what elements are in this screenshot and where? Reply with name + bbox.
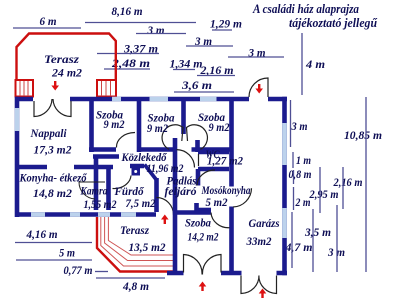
svg-text:3,6 m: 3,6 m <box>181 78 212 92</box>
svg-text:17,3 m2: 17,3 m2 <box>34 143 72 157</box>
svg-text:1 m: 1 m <box>296 153 311 167</box>
svg-text:9 m2: 9 m2 <box>147 121 168 135</box>
svg-text:tájékoztató jellegű: tájékoztató jellegű <box>289 16 378 30</box>
svg-text:Terasz: Terasz <box>120 223 149 237</box>
svg-text:1,34 m: 1,34 m <box>170 57 203 71</box>
svg-text:14,2 m2: 14,2 m2 <box>188 230 219 244</box>
mosokonyha door arc <box>197 170 215 186</box>
wall top <box>15 97 287 102</box>
svg-text:6 m: 6 m <box>40 14 57 28</box>
svg-text:3 m: 3 m <box>327 245 345 259</box>
svg-text:0,77 m: 0,77 m <box>64 263 93 277</box>
wc wall top <box>198 150 229 155</box>
red arrow lower terrace entry <box>161 215 169 225</box>
red arrow garage entry <box>259 289 267 299</box>
mosokonyha bottom wall <box>196 208 211 213</box>
svg-text:2 m: 2 m <box>295 195 311 209</box>
svg-text:9 m2: 9 m2 <box>209 120 230 134</box>
svg-text:4,16 m: 4,16 m <box>26 227 58 241</box>
wc wall bottom <box>198 167 229 172</box>
bottom szoba double door <box>184 255 222 275</box>
svg-text:Garázs: Garázs <box>249 216 280 230</box>
red arrow szoba door <box>199 282 207 292</box>
svg-text:feljáró: feljáró <box>165 184 197 198</box>
terrace step box right <box>97 80 116 97</box>
wall szoba1 left <box>89 99 94 152</box>
bottom szoba top door arc <box>211 213 230 228</box>
svg-text:8,16 m: 8,16 m <box>112 4 143 18</box>
blue flue symbol <box>132 168 141 176</box>
wall left of bottom szoba <box>173 138 178 273</box>
red arrow main entry <box>255 84 263 94</box>
svg-text:9 m2: 9 m2 <box>104 117 125 131</box>
kamra wall left <box>94 155 99 211</box>
wc top stub wall <box>195 140 200 152</box>
wall szoba1 right <box>137 99 142 152</box>
bathroom chamfer wall <box>145 165 157 181</box>
main entry door top <box>249 78 268 97</box>
wc door <box>177 150 199 168</box>
kamra thin door <box>79 182 105 199</box>
svg-text:Szoba: Szoba <box>185 216 211 230</box>
svg-text:1,27 m2: 1,27 m2 <box>207 154 243 168</box>
wall szoba3 right long <box>229 99 234 273</box>
main bottom wall <box>15 212 156 217</box>
wall szoba2/3 divider <box>181 99 186 134</box>
svg-text:Nappali: Nappali <box>30 126 68 140</box>
svg-text:7,5 m2: 7,5 m2 <box>126 196 156 210</box>
svg-text:3 m: 3 m <box>291 119 308 133</box>
svg-text:0,8 m: 0,8 m <box>289 167 312 181</box>
svg-text:13,5 m2: 13,5 m2 <box>129 240 166 254</box>
furdo door <box>113 176 132 189</box>
svg-text:Kamra: Kamra <box>80 184 108 198</box>
terrace top red outline <box>17 34 116 81</box>
svg-text:33m2: 33m2 <box>246 234 272 248</box>
szoba1 door <box>116 133 135 148</box>
svg-text:Terasz: Terasz <box>44 52 79 66</box>
svg-text:2,95 m: 2,95 m <box>309 187 339 201</box>
svg-text:5 m: 5 m <box>59 246 75 260</box>
svg-text:14,8 m2: 14,8 m2 <box>33 186 72 200</box>
svg-text:10,85 m: 10,85 m <box>344 128 382 142</box>
svg-text:4,8 m: 4,8 m <box>122 279 149 293</box>
svg-text:1,55 m2: 1,55 m2 <box>84 197 117 211</box>
windows left wall <box>15 108 20 131</box>
red arrow terrace-nappali <box>51 81 59 91</box>
svg-text:24 m2: 24 m2 <box>51 66 82 80</box>
windows right wall <box>282 123 287 238</box>
szoba3 door half-open <box>187 125 208 149</box>
garage double door <box>241 276 277 294</box>
bathroom top wall <box>93 154 119 159</box>
windows bottom wall <box>31 212 136 217</box>
terrace step box left <box>16 80 34 97</box>
wall right <box>282 97 287 276</box>
kamra wall right <box>106 167 111 210</box>
svg-text:4 m: 4 m <box>305 57 325 71</box>
wall left <box>15 97 20 217</box>
bottom szoba top wall <box>173 210 211 215</box>
bottom walls szoba + garage <box>167 271 287 276</box>
nappali double door <box>34 99 71 117</box>
bedroom bottom walls <box>89 147 233 152</box>
svg-text:1,29 m: 1,29 m <box>210 17 242 31</box>
lower terrace red curves <box>97 217 176 272</box>
svg-text:4,7 m: 4,7 m <box>285 240 313 254</box>
windows top wall <box>112 97 217 102</box>
svg-text:5 m2: 5 m2 <box>206 195 228 209</box>
svg-text:3 m: 3 m <box>147 23 165 37</box>
mosokonyha left wall upper <box>196 169 201 186</box>
kitchen north wall <box>15 166 144 167</box>
svg-text:3,5 m: 3,5 m <box>304 225 331 239</box>
mosokonyha left wall lower <box>194 203 199 212</box>
svg-text:A családi ház alaprajza: A családi ház alaprajza <box>252 2 359 16</box>
entry door leaf and arc <box>157 198 174 216</box>
bathroom right wall <box>154 178 159 212</box>
szoba2 door half-open <box>162 125 183 149</box>
svg-text:2,16 m: 2,16 m <box>333 175 363 189</box>
svg-text:Konyha- étkező: Konyha- étkező <box>19 171 88 185</box>
mosokonyha-garage door <box>233 188 252 207</box>
